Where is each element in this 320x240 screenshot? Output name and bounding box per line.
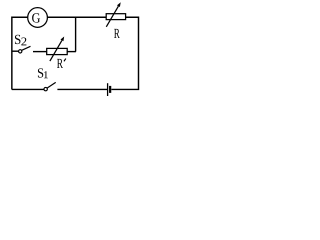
- label R: [114, 29, 120, 38]
- wire top right corner, right side, bottom right: [111, 17, 138, 89]
- wire S2 to R': [33, 51, 47, 53]
- rheostat R' box: [47, 48, 67, 54]
- label R prime letter R: [57, 59, 63, 68]
- bottom wire left: [12, 88, 44, 90]
- bottom wire middle (S1 to battery): [57, 88, 107, 90]
- rheostat R arrowhead: [117, 2, 121, 7]
- galvanometer G: [28, 8, 48, 28]
- wire R' to junction riser: [67, 51, 76, 53]
- wire junction J down to R' branch: [75, 17, 77, 51]
- wire left side and top-left segment: [12, 17, 28, 89]
- label S2 subscript 2: [21, 37, 26, 45]
- rheostat R arrow shaft: [106, 6, 118, 27]
- label S2 letter S: [15, 35, 20, 44]
- battery short thick plate: [109, 86, 111, 93]
- rheostat R box: [106, 14, 125, 20]
- label S1 letter S: [38, 68, 43, 77]
- switch S2 pivot circle: [19, 50, 22, 53]
- battery long thin plate: [107, 83, 109, 96]
- label S1 subscript 1: [44, 71, 48, 78]
- switch S1 pivot circle: [44, 87, 47, 90]
- rheostat R' arrow shaft: [50, 40, 62, 61]
- rheostat R' arrowhead: [60, 37, 64, 42]
- switch S2 blade: [22, 46, 31, 50]
- wire top middle (G to R): [47, 16, 106, 18]
- switch S2 stub from left wire: [12, 50, 19, 52]
- switch S1 blade: [47, 82, 56, 88]
- label R prime tick: [64, 59, 66, 62]
- label G: [32, 13, 40, 22]
